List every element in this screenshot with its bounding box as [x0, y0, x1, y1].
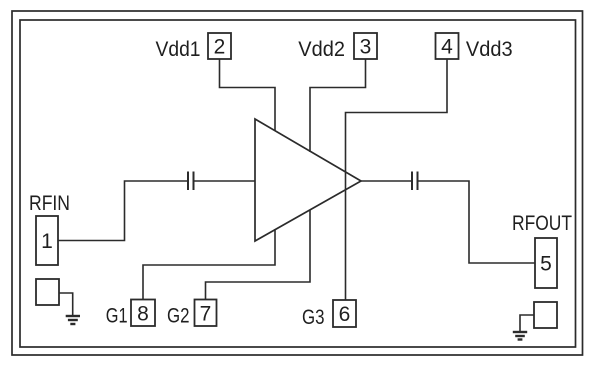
wire pin3 Vdd2 to amplifier	[310, 59, 366, 152]
pin 5 box (RFOUT)	[535, 238, 557, 288]
ground symbol right	[513, 332, 527, 340]
capacitor C2 (output DC block)	[412, 172, 418, 191]
svg-text:G1: G1	[106, 305, 128, 328]
ground symbol left	[66, 316, 80, 324]
svg-text:5: 5	[540, 253, 552, 276]
ground pad right (square)	[534, 302, 557, 328]
wire pin4 Vdd3 to pin6 G3	[346, 59, 448, 300]
wire pin2 Vdd1 to amplifier	[220, 59, 276, 131]
ground pad left (square)	[36, 279, 59, 305]
wire left pad to ground	[59, 293, 73, 316]
svg-text:Vdd2: Vdd2	[298, 38, 345, 61]
svg-text:8: 8	[137, 303, 149, 326]
pin 8 box (G1)	[131, 300, 155, 327]
op-amp A1 (amplifier triangle)	[255, 119, 361, 241]
wire right pad to ground	[520, 315, 534, 332]
wire input capacitor to amplifier	[195, 180, 256, 182]
svg-text:3: 3	[360, 36, 372, 59]
svg-text:G2: G2	[167, 305, 190, 328]
svg-text:RFOUT: RFOUT	[512, 212, 572, 235]
svg-text:G3: G3	[302, 306, 325, 329]
wire pin1 to input capacitor	[58, 181, 187, 241]
pin 6 box (G3)	[333, 300, 356, 327]
svg-text:1: 1	[41, 230, 53, 253]
svg-text:Vdd3: Vdd3	[466, 38, 513, 61]
svg-text:Vdd1: Vdd1	[156, 38, 201, 61]
svg-text:2: 2	[214, 36, 226, 59]
wire pin8 G1 to amplifier	[143, 229, 275, 300]
svg-text:4: 4	[441, 36, 453, 59]
pin 1 box (RFIN)	[36, 216, 58, 265]
pin 3 box	[354, 33, 377, 59]
wire amplifier output to output capacitor	[361, 180, 411, 182]
pin 7 box (G2)	[195, 300, 217, 327]
wire output capacitor to pin5	[419, 181, 536, 263]
pin 4 box	[436, 33, 459, 59]
wire pin7 G2 to amplifier	[206, 210, 311, 300]
svg-text:RFIN: RFIN	[29, 192, 70, 215]
svg-text:6: 6	[339, 303, 351, 326]
capacitor C1 (input DC block)	[188, 172, 194, 191]
pin 2 box	[208, 33, 231, 59]
svg-text:7: 7	[200, 303, 212, 326]
